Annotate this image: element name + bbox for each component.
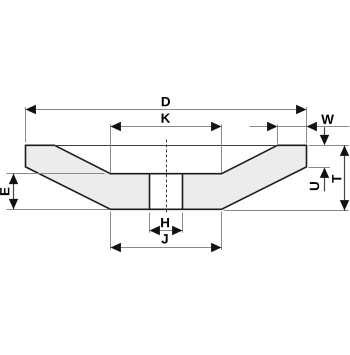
rim top projection line xyxy=(55,145,278,147)
dimension U xyxy=(309,127,331,191)
dimension E xyxy=(0,174,109,210)
dimension W xyxy=(249,115,349,144)
dimension J xyxy=(111,212,222,253)
dimension K xyxy=(111,113,222,172)
dimension H xyxy=(150,213,183,236)
bore hole edges xyxy=(150,174,183,210)
dimension T xyxy=(224,146,350,211)
centerline xyxy=(166,140,168,214)
dimension D xyxy=(26,97,307,143)
wheel cross-section body xyxy=(26,145,307,209)
